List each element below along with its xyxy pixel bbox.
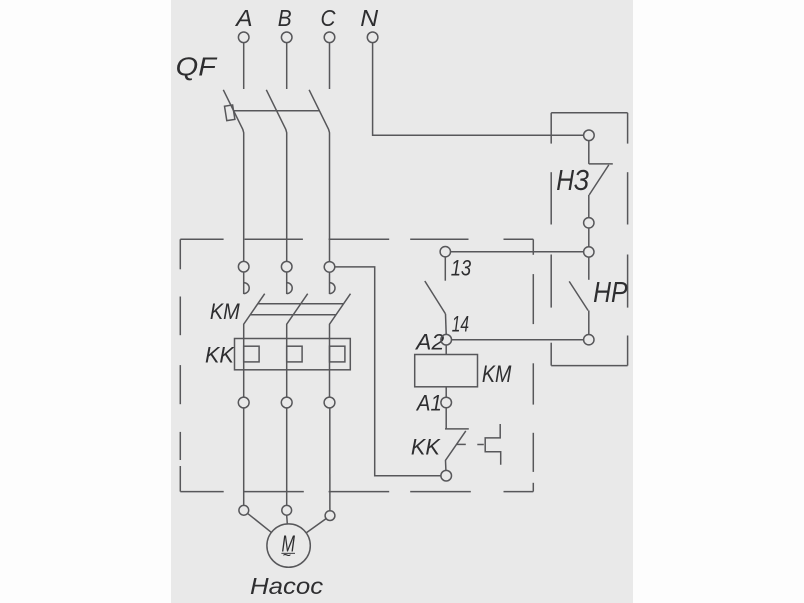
junction circle [584, 247, 594, 257]
button NZ blade [589, 165, 609, 195]
svg-text:НЗ: НЗ [556, 165, 589, 197]
svg-text:N: N [360, 5, 378, 31]
lower terminal A [238, 397, 249, 408]
motor lead B [286, 515, 289, 524]
contact KK NC tick [445, 428, 469, 430]
connector pin B [281, 261, 292, 272]
svg-text:A1: A1 [415, 391, 442, 416]
svg-text:QF: QF [176, 54, 218, 82]
terminal N [367, 32, 378, 43]
wire HP lower [588, 311, 590, 335]
wire C to control circuit [335, 267, 441, 476]
svg-text:НР: НР [593, 277, 628, 309]
buttons box left edge dashes [550, 113, 552, 366]
breaker QF latch rectangle [225, 105, 235, 121]
motor terminal A [239, 505, 249, 515]
wire A2 to HP button [452, 339, 584, 341]
svg-text:A: A [234, 5, 253, 31]
contactor KM linkage lower line [250, 314, 336, 316]
wire 13 to stop button branch [451, 251, 584, 253]
wire 14 to A2 [445, 314, 448, 335]
motor lead A [248, 513, 272, 532]
wire phase A drop [243, 43, 245, 89]
connector socket B [287, 272, 293, 294]
svg-text:13: 13 [451, 256, 472, 281]
button HP blade [569, 281, 588, 310]
wire to motor terminal B [286, 408, 288, 506]
thermal relay KK heater C [330, 339, 345, 370]
enclosure dashed border left edge [179, 239, 181, 491]
contactor KM pole A blade [244, 294, 265, 339]
buttons box top edge [551, 112, 627, 114]
wire KK to lower terminals C [329, 370, 331, 397]
terminal B [281, 32, 292, 43]
motor lead C [306, 519, 326, 533]
connector socket A [244, 272, 250, 294]
lower terminal C [324, 397, 335, 408]
wire to junction [588, 228, 590, 247]
breaker QF pole B blade [266, 90, 286, 261]
wire KK to lower terminals B [286, 370, 288, 397]
enclosure dashed border right edge [532, 239, 534, 491]
enclosure dashed border bottom edge [180, 491, 533, 493]
svg-text:A2: A2 [414, 330, 444, 355]
stop button terminal circle [584, 130, 595, 141]
contact KK dashed link [457, 443, 484, 445]
contactor KM pole C blade [330, 294, 351, 339]
wire coil to A1 [445, 387, 447, 397]
contactor KM linkage upper line [258, 303, 344, 305]
start button lower circle [584, 335, 594, 345]
contact KK NC blade [446, 431, 466, 471]
button NZ tick [589, 163, 613, 165]
connector socket C [330, 272, 336, 294]
motor underline [281, 552, 295, 554]
stop button lower circle [584, 218, 594, 228]
enclosure dashed border top edge [180, 238, 533, 240]
node 13 circle [440, 247, 450, 257]
terminal A [238, 32, 249, 43]
thermal relay KK heater B [287, 339, 302, 370]
node A2 circle [441, 334, 452, 345]
wire junction down [588, 257, 590, 280]
motor terminal C [325, 511, 335, 521]
wire KK to lower terminals A [243, 370, 245, 397]
breaker QF pole A blade [223, 90, 243, 261]
wire A1 down [445, 408, 447, 429]
lower terminal B [281, 397, 292, 408]
wire stop button upper [588, 141, 590, 164]
wire 13 down [444, 257, 446, 281]
svg-text:KM: KM [482, 361, 512, 388]
wire NZ lower [588, 195, 590, 218]
breaker QF linkage bar [234, 110, 321, 112]
wire A2 to coil [445, 345, 447, 355]
node A1 circle [441, 397, 452, 408]
svg-text:B: B [278, 5, 292, 31]
svg-text:~: ~ [283, 548, 291, 565]
svg-text:KK: KK [205, 342, 235, 367]
wire phase B drop [286, 43, 288, 89]
svg-text:Насос: Насос [250, 573, 324, 599]
buttons box right edge dashes [627, 113, 629, 366]
wire phase C drop [329, 43, 331, 89]
motor M1 circle [267, 524, 310, 567]
svg-text:14: 14 [452, 311, 469, 336]
connector pin A [238, 261, 249, 272]
svg-text:KK: KK [411, 435, 441, 460]
svg-text:KM: KM [210, 299, 241, 324]
svg-text:C: C [321, 5, 337, 31]
thermal relay KK body [235, 339, 351, 370]
wire neutral N run [373, 43, 584, 136]
contact KM auxiliary 13-14 blade [425, 281, 446, 314]
connector pin C [324, 262, 335, 273]
thermal relay KK heater A [244, 339, 259, 370]
motor terminal B [282, 505, 292, 515]
manual reset actuator [485, 424, 501, 465]
wire to motor terminal C [329, 408, 331, 511]
coil KM rectangle [415, 355, 478, 387]
node KK bottom circle [441, 470, 452, 481]
buttons box bottom edge [551, 365, 627, 367]
wire to motor terminal A [243, 408, 245, 506]
contactor KM pole B blade [287, 294, 308, 339]
terminal C [324, 32, 335, 43]
breaker QF pole C blade [309, 90, 329, 261]
